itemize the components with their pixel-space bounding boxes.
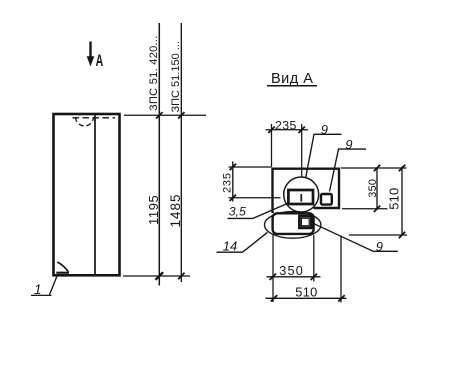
svg-text:Вид А: Вид А — [271, 71, 313, 87]
svg-text:9: 9 — [376, 239, 383, 254]
svg-text:350: 350 — [367, 179, 379, 198]
svg-text:ЗПС 51. 420...: ЗПС 51. 420... — [148, 35, 160, 111]
svg-text:235: 235 — [221, 172, 233, 193]
svg-text:1: 1 — [34, 282, 42, 297]
svg-text:А: А — [96, 50, 104, 69]
svg-text:3,5: 3,5 — [229, 205, 246, 219]
svg-text:14: 14 — [223, 238, 237, 253]
svg-text:1195: 1195 — [146, 195, 161, 225]
svg-text:510: 510 — [295, 285, 317, 300]
svg-text:235: 235 — [275, 118, 297, 132]
svg-text:9: 9 — [321, 122, 328, 137]
svg-text:510: 510 — [387, 188, 402, 210]
svg-text:350: 350 — [279, 264, 304, 278]
svg-text:1485: 1485 — [168, 193, 183, 227]
svg-text:ЗПС 51.150 ...: ЗПС 51.150 ... — [170, 41, 182, 112]
svg-text:9: 9 — [345, 137, 352, 152]
